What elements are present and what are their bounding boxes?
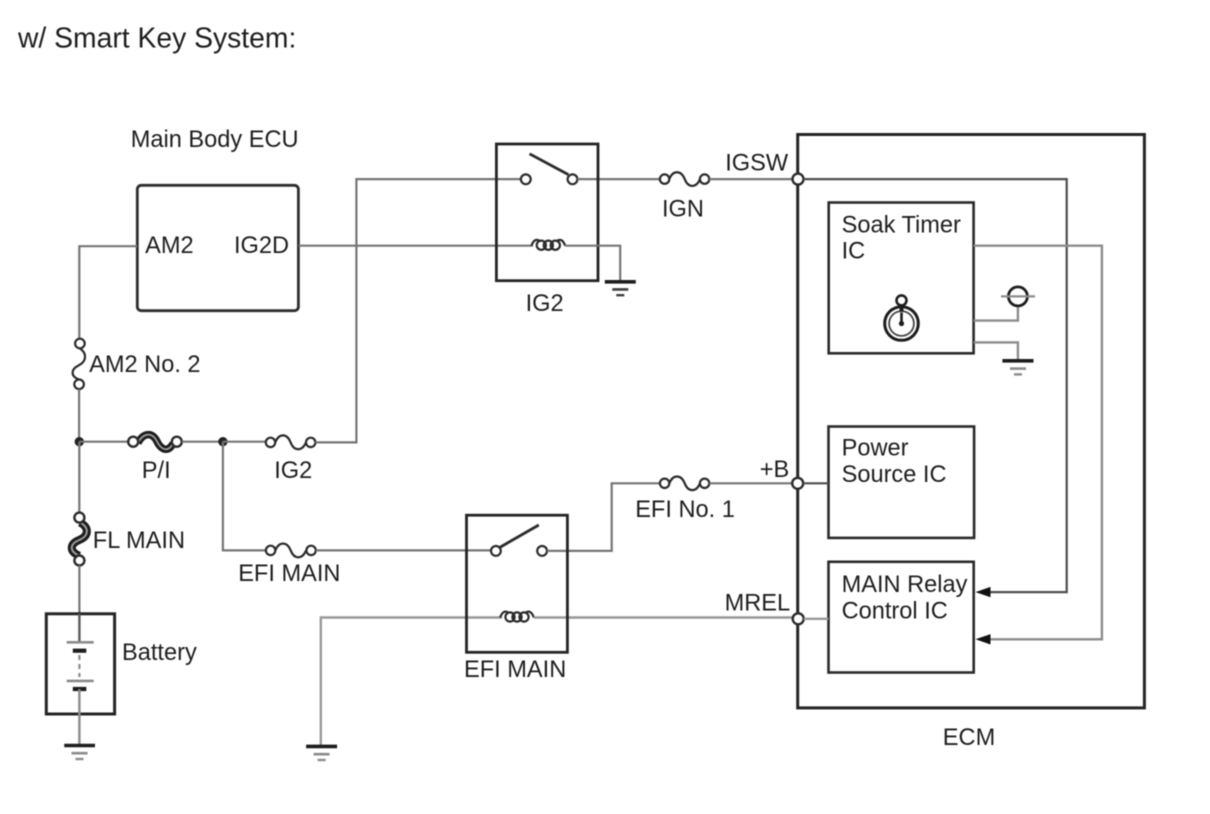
wire: fuse EFI No. 1 to ECM terminal +B (709, 482, 792, 484)
wire: Soak Timer IC to output terminal symbol (974, 306, 1018, 321)
svg-text:AM2 No. 2: AM2 No. 2 (89, 352, 200, 378)
wire: Soak Timer IC to MAIN Relay Control IC (arrow 2) (974, 246, 1102, 640)
wire: battery to ground (78, 714, 80, 746)
wire: relay EFI MAIN switch up to fuse EFI No. 1 (547, 483, 660, 551)
svg-text:IG2: IG2 (526, 291, 564, 317)
svg-text:Battery: Battery (122, 640, 197, 666)
terminal MREL (793, 613, 804, 624)
junction A dot (75, 437, 84, 446)
relay EFI MAIN box (467, 515, 568, 652)
ground in ECM at Soak Timer IC (1002, 361, 1033, 375)
wire: P/I to junction B (182, 441, 223, 443)
svg-text:Power: Power (842, 435, 909, 461)
wire: junction A down to fusible link FL MAIN (78, 442, 80, 513)
svg-text:Source IC: Source IC (842, 462, 947, 488)
Main Body ECU box (137, 185, 298, 310)
wire: relay EFI MAIN coil to ECM terminal MREL (534, 616, 793, 618)
wire: fuse EFI MAIN to relay EFI MAIN switch (316, 549, 491, 551)
svg-text:Main Body ECU: Main Body ECU (131, 127, 299, 153)
fuse IG2 (266, 435, 316, 449)
wire: Soak Timer IC to ground (974, 342, 1018, 360)
wire: fuse IG2 up to relay IG2 switch (315, 179, 521, 442)
junction B dot (218, 437, 227, 446)
battery cells symbol (67, 614, 94, 714)
relay EFI MAIN switch contacts (491, 525, 547, 556)
arrowhead into MAIN Relay Control IC (from Soak Timer) (976, 634, 991, 644)
wire: ground to relay EFI MAIN coil and to ECM terminal MREL (321, 618, 502, 747)
wire: AM2 pin left and down to fuse AM2 No. 2 (79, 246, 137, 339)
svg-text:IGN: IGN (662, 197, 704, 223)
wire: relay IG2 coil to ground (565, 246, 620, 282)
timer icon in Soak Timer IC (885, 295, 919, 340)
svg-text:ECM: ECM (943, 725, 995, 751)
battery box (46, 614, 114, 714)
svg-text:EFI MAIN: EFI MAIN (464, 657, 566, 683)
fuse AM2 No. 2 (73, 339, 85, 389)
arrowhead into MAIN Relay Control IC (from IGSW) (976, 587, 991, 597)
MAIN Relay Control IC box (829, 562, 974, 673)
svg-text:P/I: P/I (142, 458, 171, 484)
svg-text:IG2: IG2 (274, 458, 312, 484)
wire: IG2D pin to relay IG2 coil (298, 245, 533, 247)
terminal +B (792, 478, 803, 489)
svg-text:EFI MAIN: EFI MAIN (238, 561, 340, 587)
wire: FL MAIN down to battery (78, 566, 80, 615)
svg-text:AM2: AM2 (145, 233, 194, 259)
svg-text:Soak Timer: Soak Timer (842, 212, 961, 238)
Power Source IC box (829, 427, 975, 538)
ground below relay EFI MAIN coil (306, 746, 337, 760)
wire: fuse AM2 No. 2 down to junction A (78, 389, 80, 442)
svg-text:+B: +B (760, 457, 790, 483)
ECM box (798, 135, 1145, 708)
relay EFI MAIN coil (500, 612, 534, 622)
svg-text:MREL: MREL (725, 591, 791, 617)
Soak Timer IC box (829, 203, 974, 354)
svg-text:IG2D: IG2D (234, 233, 289, 259)
wire: fuse IGN to ECM terminal IGSW (709, 178, 792, 180)
relay IG2 switch contacts (521, 154, 578, 184)
svg-text:Control IC: Control IC (842, 598, 948, 624)
svg-text:IC: IC (842, 238, 866, 264)
wire: junction A to fusible link P/I (79, 441, 128, 443)
svg-text:FL MAIN: FL MAIN (93, 528, 185, 554)
fuse EFI MAIN (266, 544, 316, 558)
wire: junction B to fuse IG2 (223, 441, 266, 443)
svg-text:IGSW: IGSW (725, 151, 789, 177)
relay IG2 box (496, 144, 598, 281)
fuse EFI No. 1 (660, 476, 709, 490)
fusible link FL MAIN (72, 513, 87, 566)
terminal IGSW (793, 174, 804, 185)
wire: terminal +B to Power Source IC (803, 482, 828, 484)
svg-text:MAIN Relay: MAIN Relay (842, 572, 968, 598)
output terminal symbol (circle with bar) (1001, 287, 1035, 306)
fusible link P/I (128, 435, 182, 450)
svg-text:EFI No. 1: EFI No. 1 (635, 497, 735, 523)
wire: junction B down to fuse EFI MAIN (223, 442, 266, 551)
relay IG2 coil (531, 240, 565, 250)
fuse IGN (660, 172, 709, 186)
ground at relay IG2 (605, 282, 636, 295)
wire: terminal IGSW to MAIN Relay Control IC (arrow 1) (804, 179, 1067, 592)
wire: relay IG2 switch to fuse IGN (577, 178, 660, 180)
ground below battery (64, 746, 95, 760)
wire: terminal MREL to MAIN Relay Control IC (804, 618, 829, 620)
svg-text:w/ Smart Key System:: w/ Smart Key System: (17, 22, 296, 54)
